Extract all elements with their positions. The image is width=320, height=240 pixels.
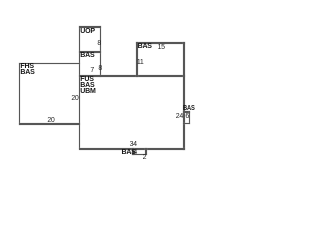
- wire: right edge vertical x=184 y=43..149: [183, 42, 185, 150]
- wire: BAS-15 box left vertical x=137: [136, 42, 138, 77]
- wire: UOP/BAS divider horizontal y=52: [79, 51, 102, 53]
- wire: UOP column right vertical x=100.5 y=27..76: [100, 26, 102, 76]
- wire: right bump bottom horizontal y=123.9: [183, 123, 190, 124]
- dimension 11 (BAS-15 height): [137, 60, 144, 66]
- dimension 24 (right wall height): [176, 114, 183, 120]
- dimension 7 (UOP column width): [90, 68, 94, 74]
- wire: BAS-15 box top horizontal y=43: [136, 42, 184, 44]
- wire: bottom bump left vertical x=132.9: [132, 148, 133, 155]
- wire: main bottom horizontal y=149 x=79.5..184: [79, 148, 185, 150]
- wire: left box top horizontal y=63.3: [19, 63, 81, 65]
- dimension 6 (right bump): [185, 114, 189, 120]
- wire: mid horizontal y=76 x=79.5..184: [79, 75, 185, 77]
- wire: bottom bump right vertical x=146: [145, 148, 146, 155]
- wire: left box left vertical x=19.5: [19, 63, 21, 125]
- dimension 8 (UOP height): [97, 41, 101, 47]
- label BAS (one-story right box): [138, 44, 152, 50]
- label UOP (upper open porch): [80, 29, 95, 35]
- dimension 2 (bottom bump depth): [143, 155, 147, 161]
- wire: right bump top horizontal y=112: [183, 111, 190, 112]
- dimension 8 (BAS cell height): [98, 66, 102, 72]
- wire: bottom bump bottom horizontal y=154.7: [132, 154, 147, 155]
- label FHS/BAS (left box): [20, 64, 34, 76]
- label BAS (right bump): [183, 106, 195, 112]
- dimension 20 (left box height): [71, 96, 78, 102]
- wire: UOP box top horizontal y=27: [79, 26, 102, 28]
- wire: left box bottom horizontal y=124: [19, 123, 81, 125]
- dimension 15 (BAS-15 width): [158, 45, 165, 51]
- label BAS (below UOP): [80, 53, 94, 59]
- dimension 4 (bottom bump width): [133, 150, 137, 156]
- dimension 34 (bottom width): [130, 142, 137, 148]
- label FUS/BAS/UBM (middle block): [80, 77, 95, 95]
- dimension 20 (left box width): [47, 118, 54, 124]
- label BAS (bottom bump): [122, 150, 136, 156]
- wire: right bump right vertical x=189.8: [189, 111, 190, 124]
- wire: main left spine vertical x=79.5 y=27..149: [79, 26, 81, 149]
